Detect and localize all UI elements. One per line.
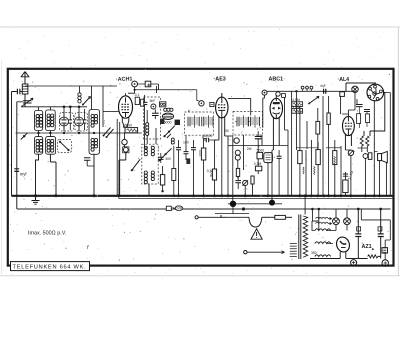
osc coil L6b	[94, 138, 97, 148]
node junction	[295, 90, 297, 92]
secondary winding HT	[315, 255, 331, 257]
psu right wire	[361, 209, 390, 248]
antenna coil L4a	[47, 139, 50, 152]
wire under tube	[119, 145, 126, 196]
antenna coil L3b	[39, 139, 42, 152]
wire osc box feed	[91, 86, 93, 110]
wire IF2 top stub	[188, 110, 190, 112]
wire IF3 right leg	[261, 135, 263, 146]
wire to bus	[203, 139, 205, 148]
wave switch arrows	[103, 128, 114, 139]
top distribution wire	[25, 85, 117, 87]
resistor v 6	[343, 172, 348, 196]
wire speaker return	[379, 161, 381, 196]
wire AE3 cathode	[221, 117, 223, 196]
band switch contact	[21, 133, 28, 140]
output terminal 2	[382, 260, 388, 266]
svg-text:·AL4: ·AL4	[338, 77, 350, 83]
tube ABC1 legs	[273, 117, 279, 150]
wire antenna to coil top	[24, 97, 26, 107]
oscillator shield box	[89, 110, 100, 155]
wire dot1 drop	[232, 204, 234, 214]
svg-text:2M: 2M	[247, 147, 252, 151]
shield box antenna coil upper b	[46, 110, 56, 131]
svg-text:0,1M: 0,1M	[254, 162, 262, 166]
grid cap ACH1	[132, 81, 138, 87]
volume pot circle with arrow	[243, 180, 249, 186]
filter cap 1	[355, 208, 361, 259]
wire socket center down	[373, 100, 375, 196]
zigzag resistor 2	[366, 136, 369, 148]
heater line	[17, 208, 391, 210]
psu section top line	[215, 213, 249, 215]
band switch arrow upper	[82, 97, 91, 106]
antenna coil L2a	[47, 114, 50, 127]
junction dot big 2	[269, 200, 275, 206]
phono input arrow	[244, 251, 285, 254]
junction dot big 1	[230, 201, 236, 207]
svg-text:350: 350	[311, 251, 317, 255]
svg-text:1,1M: 1,1M	[292, 105, 300, 109]
border frame	[8, 69, 394, 266]
wire IF2 bottom left	[185, 135, 187, 145]
cathode resistor box	[125, 128, 138, 133]
resistor horizontal 0.1M	[255, 166, 261, 171]
antenna coil L2b	[51, 114, 54, 127]
wire through coil	[146, 110, 148, 144]
resistor box vertical small b	[366, 114, 370, 123]
fuse	[275, 215, 292, 219]
resistor v 4	[316, 142, 320, 196]
wire to heater line	[16, 102, 18, 209]
variable capacitor C2	[75, 114, 84, 132]
wire riser	[156, 86, 158, 93]
long top wire	[267, 90, 356, 92]
resistor 5000 box	[257, 148, 265, 158]
small coil mid	[171, 138, 174, 144]
pilot lamp 2	[344, 209, 351, 231]
wire left stub to tube	[103, 111, 119, 113]
tuning gang box 1 (dashed)	[60, 113, 74, 132]
HT wire	[358, 256, 380, 258]
wire bias	[310, 140, 312, 196]
resistor v 5	[333, 140, 337, 197]
ground bus (thick)	[12, 195, 394, 197]
wire long vertical a	[116, 119, 118, 196]
wire coil block to bus	[36, 154, 39, 196]
output terminal 1	[351, 260, 357, 266]
IF2 unit 1	[188, 115, 199, 127]
wire AVC mid	[287, 130, 289, 196]
wire IF3 left leg	[232, 135, 234, 201]
resistor v 2	[327, 96, 330, 196]
wire long to AE3	[135, 90, 199, 101]
vertical wires to bus	[237, 160, 239, 178]
circle component	[234, 138, 239, 143]
antenna coil L1b	[39, 114, 42, 127]
svg-text:AZ1: AZ1	[362, 244, 372, 250]
solid junction block	[175, 120, 180, 125]
svg-text:·AE3: ·AE3	[214, 77, 226, 83]
cap label box b	[378, 227, 382, 231]
wire box to circle	[124, 133, 126, 140]
switch box lower (dashed)	[58, 139, 72, 152]
small box B	[382, 248, 388, 254]
switch contact circles	[235, 150, 240, 160]
resistor box vertical small a	[357, 114, 361, 124]
oval tag on heater line	[175, 206, 183, 211]
detector cap under IF3	[255, 131, 262, 152]
ground	[32, 194, 40, 204]
power transformer core	[299, 215, 301, 260]
wire IF2 unit2 bottom	[203, 135, 206, 138]
padder capacitor	[84, 158, 94, 166]
rectifier tube AZ1	[334, 235, 351, 258]
small box on heater line	[166, 206, 171, 210]
small coil horizontal	[164, 108, 173, 111]
junction dots on bus	[244, 194, 247, 197]
box right of ABC1 cap	[282, 94, 286, 98]
IF2 unit 2	[202, 115, 213, 127]
bypass circle	[122, 139, 127, 144]
osc coupling coil	[146, 123, 149, 136]
coil top wire	[21, 106, 87, 108]
resistor vertical	[236, 168, 239, 176]
trimmer capacitor	[22, 98, 34, 106]
svg-text:Imax. 500Ω p.V.: Imax. 500Ω p.V.	[28, 231, 66, 237]
junction wire y133	[16, 132, 142, 134]
trimmer box AE3	[210, 102, 214, 106]
cap label box a	[357, 227, 361, 231]
wire ABC1 leg to dot	[272, 150, 273, 203]
heater winding row A	[316, 217, 332, 220]
resistor vertical small	[251, 176, 254, 184]
capacitor padding 500	[158, 153, 171, 163]
wire coupling cap down	[322, 96, 324, 196]
wire IF3 mid leg	[243, 135, 245, 170]
wire AE3 plate to IF3	[228, 99, 251, 116]
socket feed wires	[346, 83, 375, 92]
wire down right of ABC1	[285, 97, 289, 130]
osc trimmer circle	[151, 104, 156, 109]
arrow tick	[172, 207, 174, 209]
IF transformer 1 (dashed)	[144, 97, 161, 139]
loudspeaker	[378, 151, 388, 162]
svg-text:DVR: DVR	[176, 207, 183, 211]
wires under caps	[359, 107, 367, 128]
resistor feedback vertical	[172, 146, 176, 197]
antenna coupling coil	[22, 84, 28, 94]
svg-text:20000: 20000	[204, 134, 213, 138]
capacitor on top wire	[320, 84, 326, 94]
capacitor bank c3	[191, 140, 196, 197]
resistor v 1	[316, 108, 320, 149]
switch arm lower	[131, 159, 141, 171]
wire ABC1 cap lead	[263, 95, 265, 128]
IF3 unit 2	[248, 115, 259, 127]
dark box small	[186, 158, 190, 164]
coil pair lower	[144, 171, 154, 184]
AL4 socket top view	[367, 84, 384, 101]
wire	[102, 86, 104, 127]
series cap mid	[152, 110, 159, 120]
switch arm arrows	[163, 126, 175, 138]
zigzag resistor 1	[360, 136, 363, 148]
top wire to IF	[138, 84, 159, 90]
resistor v 3	[298, 106, 302, 197]
mid horizontal wire	[228, 145, 288, 147]
wire right rail	[389, 100, 391, 196]
shield box antenna coil lower b	[46, 137, 56, 155]
svg-text:5000: 5000	[164, 121, 172, 125]
wire long vertical b	[119, 122, 121, 196]
wire vertical extra a	[305, 150, 307, 196]
coil pair upper	[144, 146, 154, 156]
tube legs	[122, 117, 124, 129]
tube ACH1 envelope	[119, 96, 133, 118]
grid cap ABC1	[262, 90, 267, 95]
tube AL4 envelope	[343, 114, 355, 136]
wire lamp to AL4 grid cap	[348, 93, 355, 115]
title block TELEFUNKEN 664 WK	[11, 262, 90, 271]
svg-text:myf: myf	[20, 172, 28, 177]
value squiggle 0.5M	[314, 167, 315, 175]
capacitor top a	[356, 105, 363, 107]
small box	[340, 92, 345, 97]
screen resistor small boxes	[135, 97, 139, 104]
oscillator section coils lower (dashed box)	[142, 144, 158, 184]
tone pot circle	[348, 150, 353, 196]
tube AE3 legs	[219, 116, 225, 140]
switch arm mid	[158, 148, 171, 161]
padding capacitor oval	[162, 113, 173, 124]
warning triangle	[251, 229, 262, 239]
series capacitor 20000	[204, 134, 217, 142]
filter cap 2	[378, 208, 384, 259]
shield box antenna coil lower	[35, 137, 43, 155]
small pot circle	[276, 92, 280, 96]
wire osc to bus	[93, 154, 95, 196]
svg-text:100: 100	[183, 141, 189, 145]
series capacitor to chassis wire	[12, 89, 23, 94]
risers into gang	[64, 107, 85, 115]
wire socket to rail	[385, 93, 391, 101]
AL4 legs	[345, 134, 351, 150]
value squiggle 1M	[303, 167, 304, 174]
capacitor top b	[364, 110, 370, 112]
IF transformer 2 (dashed, two units)	[185, 112, 214, 135]
grid cap lead	[126, 87, 135, 96]
svg-text:5000: 5000	[125, 124, 133, 128]
capacitor bank c2	[184, 145, 189, 160]
voltage selector taps	[290, 244, 297, 257]
bus echo line	[119, 196, 393, 199]
wire AE3 anode riser	[227, 136, 229, 196]
svg-text:4,5M: 4,5M	[292, 98, 300, 102]
osc coil L5b	[94, 114, 97, 124]
svg-text:·ACH1: ·ACH1	[116, 76, 133, 83]
antenna coil L1a	[36, 114, 39, 127]
junction dot heater line	[242, 207, 245, 210]
resistor box v1	[199, 148, 205, 197]
junction dots on top wire	[63, 106, 66, 109]
value squiggle 0.1M	[334, 157, 335, 165]
trimmer cap beside C2	[83, 115, 87, 131]
headphone jack	[363, 153, 372, 160]
IF3 unit 1	[235, 115, 250, 127]
wire	[50, 154, 56, 196]
contact circles	[123, 147, 129, 153]
tube ABC1 envelope	[270, 95, 282, 119]
wire divider	[306, 121, 308, 149]
capacitor myf	[14, 169, 27, 177]
resistor box v2	[211, 140, 217, 197]
wire left down to bus	[11, 92, 13, 196]
switch contacts row	[301, 86, 313, 91]
antenna coil L4b	[51, 139, 54, 152]
dial lamp	[352, 86, 358, 92]
heater winding row B	[316, 222, 332, 225]
capacitor bank c1	[176, 140, 181, 197]
coil connect wires	[39, 107, 51, 137]
osc coil L5a	[91, 114, 94, 127]
osc coil L6a	[91, 138, 94, 151]
wave switch arrow	[308, 96, 319, 104]
antenna	[21, 72, 29, 98]
switch arm in box	[59, 141, 70, 151]
variable capacitor C1	[60, 114, 69, 132]
coupling cap horizontal	[235, 174, 241, 189]
svg-text:TELEFUNKEN 664 WK.: TELEFUNKEN 664 WK.	[13, 264, 87, 270]
screen resistor box b	[141, 99, 144, 106]
wire AVC left	[291, 91, 293, 196]
trimmer cap beside C1	[69, 115, 73, 131]
shield box antenna coil upper	[35, 111, 43, 131]
smoothing resistor	[368, 255, 378, 258]
wires to bus	[148, 184, 150, 196]
partial mid line	[228, 203, 282, 205]
tuning gang box 2 (dashed)	[75, 113, 88, 132]
wire grid stopper	[341, 96, 349, 114]
trimmer pair box	[160, 102, 166, 107]
pilot lamp 1	[333, 209, 340, 231]
resistor vertical with label	[160, 166, 164, 192]
svg-text:50: 50	[225, 129, 229, 133]
svg-text:0,1: 0,1	[135, 93, 140, 97]
svg-text:500: 500	[166, 157, 172, 161]
dark block	[160, 119, 164, 124]
capacitor above output grid resistor	[343, 174, 348, 176]
heater feed wires	[327, 231, 336, 244]
cap on left wire	[142, 95, 148, 148]
grid cap AE3	[199, 101, 204, 106]
svg-text:0,3: 0,3	[207, 169, 212, 173]
resistor label box 1	[292, 102, 303, 107]
wire AE3 leg	[215, 139, 219, 141]
paper scan edges (decorative)	[0, 26, 400, 28]
wire zigzag feeds	[362, 148, 368, 196]
antenna coil L3a	[36, 139, 39, 152]
tube AE3 envelope	[216, 93, 228, 118]
horizontal link wires	[296, 147, 318, 149]
trimmer box	[145, 81, 151, 87]
cap vertical pair	[277, 150, 282, 196]
wire vertical extra b	[340, 146, 342, 196]
rf coil upper	[78, 86, 81, 103]
mains switch	[195, 215, 275, 227]
svg-text:5nF: 5nF	[150, 99, 156, 103]
IF transformer 3 (big dashed)	[233, 112, 263, 136]
secondary winding heater 1	[315, 229, 331, 231]
secondary winding heater 2	[315, 242, 331, 244]
svg-text:5000: 5000	[257, 148, 265, 152]
wire screen feed	[295, 91, 297, 150]
electrolytic can	[264, 153, 273, 163]
svg-text:4nF: 4nF	[320, 84, 326, 88]
resistor label box 2	[292, 109, 303, 114]
wire vertical extra c	[385, 162, 387, 196]
primary winding	[303, 216, 308, 257]
